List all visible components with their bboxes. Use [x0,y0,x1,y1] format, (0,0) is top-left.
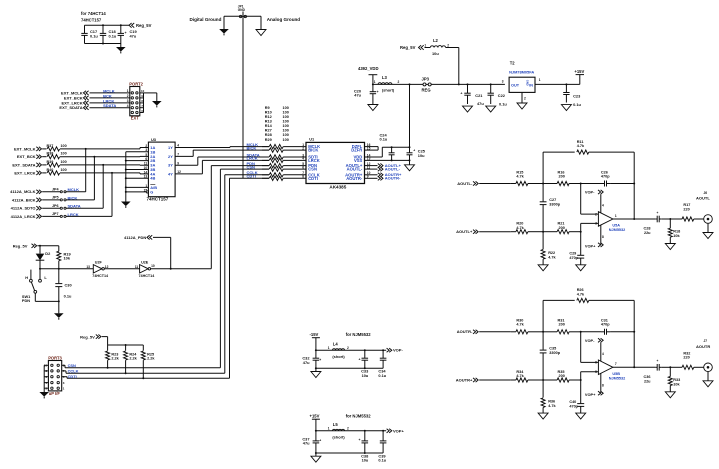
svg-text:100: 100 [283,133,289,137]
svg-text:Reg_5V: Reg_5V [13,244,28,249]
svg-text:1: 1 [424,43,426,47]
svg-text:R17: R17 [683,203,690,207]
connector PORT2 left wires EXT_MCLK/EXT_BCK/EXT_LRCK/EXT_SDATA [59,88,129,110]
svg-text:AOUTL-: AOUTL- [385,167,401,172]
svg-text:4392_VDD: 4392_VDD [358,66,379,71]
svg-text:3300p: 3300p [549,203,560,207]
svg-text:4.7k: 4.7k [516,323,524,327]
svg-text:CCLK: CCLK [68,369,79,374]
wire REG supply row [372,83,505,85]
svg-text:CSN: CSN [308,167,317,172]
svg-text:100: 100 [283,106,289,110]
resistor R14 100 in series with PDN [247,161,307,168]
svg-text:NJM5532: NJM5532 [609,376,625,380]
svg-text:JP7: JP7 [52,212,59,216]
ground (open) below VSS rail [405,160,415,170]
power flag +15V [574,69,584,85]
svg-text:4Y: 4Y [168,171,173,176]
wire VOP+ filter supply row [315,413,386,431]
svg-text:AOUTL-: AOUTL- [347,167,363,172]
svg-text:C28: C28 [644,227,651,231]
svg-text:R29: R29 [265,138,272,142]
diode D2 [36,246,51,280]
svg-text:D2: D2 [45,251,51,256]
inverter U2F 74HCT14 [86,261,109,279]
ground (open) below C29 [576,265,586,271]
svg-text:NJM5532: NJM5532 [609,228,625,232]
resistor R35 200 [543,370,582,382]
node Digital Ground [190,16,225,29]
svg-text:0.1u: 0.1u [90,33,98,38]
resistor R21 200 [543,222,582,234]
svg-text:2: 2 [595,212,597,216]
net flag 4112A_PDN [124,235,171,240]
resistor R16 200 [543,170,582,185]
resistor R38 100 on EXT_BCK [17,152,140,159]
capacitor C35 3300p [540,332,561,381]
svg-text:+15V: +15V [574,69,584,74]
capacitor C30 0.1u [55,269,72,303]
svg-text:C22: C22 [498,93,506,98]
net flag Reg_5V (uP pull-ups) [80,334,143,346]
svg-text:2.2k: 2.2k [111,357,119,361]
svg-text:1: 1 [539,78,541,82]
capacitor C37 electrolytic [302,431,321,453]
svg-text:200: 200 [559,323,565,327]
svg-text:100: 100 [61,152,67,156]
svg-text:+: + [359,438,361,442]
svg-text:REG: REG [422,87,431,92]
svg-text:R36: R36 [548,400,555,404]
resistor R24 2.2k pull-up [124,345,138,374]
svg-text:10: 10 [151,264,155,268]
svg-text:2: 2 [347,346,349,350]
node Analog Ground [261,16,300,29]
svg-text:JP6: JP6 [52,204,59,208]
svg-text:47u: 47u [130,33,137,38]
ground PORT3 (filled) [39,392,49,398]
wire U2F out to U2E in [104,268,139,270]
capacitor C25 electrolytic [407,147,426,160]
capacitor C29 470p to ground [569,232,584,265]
wire mux outputs 1Y-4Y to MCLK/BICK/SDATA/LRCK rows [168,144,269,177]
capacitor C40 470p to ground [569,380,584,413]
svg-text:10u: 10u [418,153,425,158]
svg-text:4: 4 [302,157,304,161]
svg-text:VOP+: VOP+ [585,392,596,397]
resistor R39 100 on EXT_SDATA [12,160,140,167]
svg-text:1: 1 [328,427,330,431]
svg-text:2: 2 [302,146,304,150]
svg-text:4B: 4B [150,176,155,181]
resistor R19 10k [57,246,72,270]
power flag +15V [310,413,320,430]
svg-text:4.7k: 4.7k [577,293,585,297]
svg-text:EXT_BCK: EXT_BCK [17,154,36,159]
svg-text:SDATA: SDATA [103,103,116,108]
capacitor C23 [563,84,581,107]
svg-text:CSN: CSN [68,363,76,368]
net flag Reg_5V (PDN pull-up) [13,244,59,249]
ground (open) below C20 [368,101,378,111]
svg-text:3: 3 [502,80,504,84]
resistor R34 4.7k [511,370,543,382]
IC U1 AK4385 body [306,137,365,190]
jack J7 AOUTR [696,339,712,372]
svg-text:4112A_BICK: 4112A_BICK [12,197,36,202]
power flag VOP+ at U5B [585,373,604,397]
svg-text:1: 1 [615,214,617,218]
resistor R40 100 on EXT_LRCK [14,168,140,175]
resistor R10 100 in series with BICK [247,145,307,152]
svg-text:4.7k: 4.7k [548,256,556,260]
power flag VOP+ at U5A [585,225,604,249]
capacitor C32 electrolytic [302,350,321,368]
svg-text:0.1u: 0.1u [573,102,581,107]
svg-text:6: 6 [595,361,597,365]
svg-text:IN: IN [529,84,533,88]
wire CCLK net route [66,175,269,373]
svg-text:3300p: 3300p [549,351,560,355]
svg-text:2: 2 [347,427,349,431]
wire VOP- filter supply row [315,332,386,351]
svg-text:3: 3 [595,222,597,226]
svg-text:R9: R9 [265,106,270,110]
svg-text:4.7k: 4.7k [516,226,524,230]
svg-text:L2: L2 [433,38,439,43]
svg-text:GND: GND [238,8,246,12]
ground (open) VOP- filter [311,368,321,377]
svg-text:uP I/F: uP I/F [49,391,61,396]
svg-text:8: 8 [602,235,604,239]
wire VOP- filter ground rail [315,349,384,369]
svg-text:Reg_5V: Reg_5V [80,334,95,339]
capacitor C21 electrolytic [460,83,484,106]
svg-text:10u: 10u [432,51,439,56]
ground (open) below C21 [463,106,473,112]
wire CDTI to PORT3 [62,374,77,379]
wire CDTI net route [67,178,269,378]
ground (open) below AOUTR jack [703,372,713,387]
ground (open) below R18 [665,244,675,250]
svg-text:+: + [359,357,361,361]
resistor R29 100 in series with CDTI [247,174,307,181]
ground digital (filled) [219,29,229,35]
ground (digital) below C19 [116,44,126,54]
svg-text:R27: R27 [265,129,272,133]
svg-text:AOUTR+: AOUTR+ [456,377,473,382]
inverter U2E 74HCT14 [135,261,155,279]
capacitor C31 470p [581,319,636,335]
resistor R23 2.2k pull-up [106,345,120,369]
svg-text:JP5: JP5 [52,196,59,200]
svg-text:2: 2 [447,43,449,47]
svg-text:G: G [150,189,153,194]
svg-text:470p: 470p [601,323,610,327]
svg-text:470p: 470p [569,404,578,408]
svg-text:PORT3: PORT3 [48,355,62,360]
wire EXT_BCK jog into mux [93,156,148,158]
ground (filled) below SW1/C30 [54,301,64,319]
svg-text:470p: 470p [601,174,610,178]
svg-text:47u: 47u [303,440,310,445]
jumper JP1 ground link [238,4,247,17]
svg-text:AOUTL-: AOUTL- [457,181,473,186]
svg-text:R22: R22 [548,251,555,255]
ground (open) below C40 [576,413,586,419]
resistor R37 100 on EXT_MCLK [14,144,140,151]
svg-text:J7: J7 [704,339,708,343]
svg-text:PORT2: PORT2 [129,81,143,86]
jumper JP6 (4112A_SDTO to SDATA) [11,204,104,211]
svg-text:Digital Ground: Digital Ground [190,17,222,22]
svg-text:OUT: OUT [511,84,520,88]
capacitor C24 [380,132,395,160]
svg-text:4.7k: 4.7k [516,374,524,378]
svg-text:74HCT157: 74HCT157 [81,18,102,23]
svg-text:74HCT157: 74HCT157 [147,196,169,201]
svg-text:0.1u: 0.1u [64,293,72,298]
svg-text:2: 2 [127,94,129,98]
resistor R22 4.7k to ground [541,232,556,265]
svg-text:200: 200 [559,174,565,178]
svg-text:11: 11 [135,265,139,269]
svg-text:47u: 47u [303,360,310,365]
wire JP7 riser [111,173,113,217]
svg-text:0.1u: 0.1u [380,136,388,141]
svg-text:EXT_LRCK: EXT_LRCK [14,170,35,175]
wire CSN net route [65,169,269,368]
capacitor C19 electrolytic [118,25,138,43]
jack J6 AOUTL [696,191,712,224]
net flag AOUTL+ [456,229,511,234]
resistor R28 100 in series with CCLK [247,170,307,177]
svg-text:+: + [125,31,127,35]
svg-text:R14: R14 [265,124,273,128]
svg-text:8: 8 [302,175,304,179]
svg-text:470p: 470p [569,256,578,260]
svg-text:100: 100 [283,115,289,119]
svg-text:-15V: -15V [310,332,319,337]
svg-text:T2: T2 [510,61,516,66]
svg-text:(short): (short) [382,88,395,93]
svg-text:4112A_SDTO: 4112A_SDTO [11,206,36,211]
net flag AOUTL- at U1 [365,167,401,172]
svg-text:C23: C23 [573,93,581,98]
svg-text:VOP-: VOP- [585,190,595,195]
capacitor C39 [378,431,386,463]
net flag AOUTR+ [456,377,511,382]
svg-text:U3: U3 [151,137,157,142]
svg-text:R18: R18 [673,230,680,234]
power flag VOP- at U5B [585,338,604,361]
wire T2 pin2 to ground [517,92,527,109]
svg-text:74HCT14: 74HCT14 [139,274,156,278]
inductor L4 (short) [328,342,349,359]
svg-text:0.1u: 0.1u [109,33,117,38]
resistor R20 4.7k [511,222,543,234]
svg-text:U2E: U2E [141,261,149,265]
svg-text:for NJM5532: for NJM5532 [346,332,372,337]
svg-text:R33: R33 [673,378,680,382]
svg-text:JP3: JP3 [422,76,430,81]
resistor R11 4.7k feedback [543,140,635,220]
svg-text:220: 220 [683,207,689,211]
ground (open) below AOUTL jack [703,223,713,238]
svg-text:2.2k: 2.2k [129,357,137,361]
net flag AOUTL- [457,181,511,186]
svg-text:+: + [319,438,321,442]
svg-text:0.1u: 0.1u [378,458,386,463]
svg-text:+: + [657,211,659,215]
resistor R15 4.7k [511,170,544,185]
wire PDN row [211,165,269,167]
resistor bank labels R9-R29 100 ohm [265,106,289,142]
svg-text:GND: GND [525,80,529,86]
svg-text:4112A_MCLK: 4112A_MCLK [10,189,35,194]
svg-text:AOUTL+: AOUTL+ [456,229,473,234]
svg-text:+: + [413,148,415,152]
svg-text:1: 1 [374,80,376,84]
wire PORT3 ground bus [44,365,48,392]
wire L2 to REG node [458,48,460,86]
wire VSS rail [365,159,411,161]
svg-text:2: 2 [524,97,526,101]
wire CCLK to PORT3 [62,369,79,374]
op-amp U5B NJM5532 [581,332,626,381]
wire VDD to decoupling rail [365,146,411,157]
capacitor C28 22u [644,211,672,235]
svg-text:C30: C30 [65,282,72,287]
wire U5B output [613,366,655,368]
svg-text:U1: U1 [309,137,315,142]
inductor L3 (short) [374,75,400,93]
svg-text:R28: R28 [265,133,272,137]
svg-text:4: 4 [602,204,604,208]
svg-text:10: 10 [141,89,145,93]
resistor R32 220 [670,351,704,369]
capacitor C27 3300p [540,184,561,233]
svg-text:J6: J6 [704,191,708,195]
wire U5A output [613,218,655,220]
svg-text:EXT_MCLK: EXT_MCLK [14,146,36,151]
resistor R18 10k to ground [668,219,680,244]
svg-text:1: 1 [127,89,129,93]
op-amp U5A NJM5532 [581,184,626,233]
wire U2E output to PDN net [151,268,212,270]
inductor L2 10u from Reg_5V [400,38,459,56]
resistor R25 2.2k pull-up [141,345,155,379]
svg-text:EXT_SDATA: EXT_SDATA [12,162,35,167]
wire VOP+ filter ground rail [315,430,384,454]
svg-text:+: + [319,358,321,362]
svg-text:100: 100 [283,129,289,133]
svg-text:0.1u: 0.1u [499,102,507,107]
svg-text:R12: R12 [265,115,272,119]
capacitor C18 [100,25,117,43]
svg-text:22u: 22u [644,231,651,235]
svg-text:EXT: EXT [131,115,139,120]
svg-text:2: 2 [398,80,400,84]
regulator T2 NJM78M05FA [502,61,541,93]
capacitor C38 electrolytic [359,431,370,463]
resistor R12 100 in series with SDATA [247,152,307,159]
jumper JP4 (4112A_MCLK to MCLK) [10,187,86,194]
svg-text:C21: C21 [475,93,483,98]
connector PORT2 header [129,81,143,120]
resistor R27 100 in series with CSN [247,164,307,171]
ground (open) below R33 [665,392,675,398]
svg-text:R13: R13 [265,120,272,124]
svg-text:10u: 10u [362,373,369,378]
svg-text:2.2k: 2.2k [147,357,155,361]
net flag AOUTR- at U1 [365,176,402,181]
wire 4112A_PDN drop [170,237,172,269]
wire EXT_LRCK jog into mux [111,172,148,174]
svg-text:4.7k: 4.7k [577,144,585,148]
svg-text:7: 7 [615,362,617,366]
ground (open) below R22 [538,265,548,271]
net flag AOUTR+ at U1 [365,172,403,177]
svg-text:C40: C40 [569,400,576,404]
svg-text:47u: 47u [354,93,361,98]
wire EXT_SDATA jog into mux [102,164,148,166]
svg-text:100: 100 [61,168,67,172]
svg-text:L5: L5 [333,422,339,427]
mux U3 input pin labels [144,144,158,195]
switch SW1 PDN [22,270,59,303]
svg-text:3: 3 [127,99,129,103]
svg-text:for NJM5532: for NJM5532 [346,413,372,418]
wire JP4 riser [85,149,87,192]
resistor R31 200 [543,319,582,334]
capacitor C22 [488,83,508,106]
svg-text:74HCT14: 74HCT14 [92,274,109,278]
svg-text:BICK: BICK [308,148,318,153]
svg-text:100: 100 [283,138,289,142]
capacitor C33 electrolytic [359,350,370,378]
svg-text:Analog Ground: Analog Ground [267,17,301,22]
resistor R36 4.7k to ground [541,380,556,413]
mux U3 74HCT157 body [147,137,176,202]
capacitor C17 [81,25,98,43]
power flag VOP- at U5A [585,190,604,213]
svg-text:220: 220 [683,356,689,360]
svg-text:Reg_5V: Reg_5V [136,23,152,28]
svg-text:2Y: 2Y [168,154,173,159]
svg-text:10k: 10k [673,382,680,386]
svg-text:L3: L3 [382,75,388,80]
wire PDN node row [40,268,93,270]
svg-text:4112A_PDN: 4112A_PDN [124,235,146,240]
ground analog (open) [256,30,266,36]
capacitor C36 22u [644,359,672,383]
svg-text:+: + [657,359,659,363]
svg-text:4112A_LRCK: 4112A_LRCK [11,214,36,219]
wire PDN net vertical [210,166,212,269]
svg-text:4: 4 [602,352,604,356]
svg-text:VOP+: VOP+ [393,428,404,433]
svg-text:10k: 10k [64,255,71,260]
ground mux (filled) [121,202,131,208]
wire ground distribution [224,15,261,17]
svg-text:BICK: BICK [247,145,257,150]
svg-text:VOP-: VOP- [393,348,403,353]
wire JP5 riser [93,157,95,200]
svg-text:H: H [25,275,28,280]
svg-text:(short): (short) [332,435,345,440]
svg-text:5: 5 [595,370,597,374]
